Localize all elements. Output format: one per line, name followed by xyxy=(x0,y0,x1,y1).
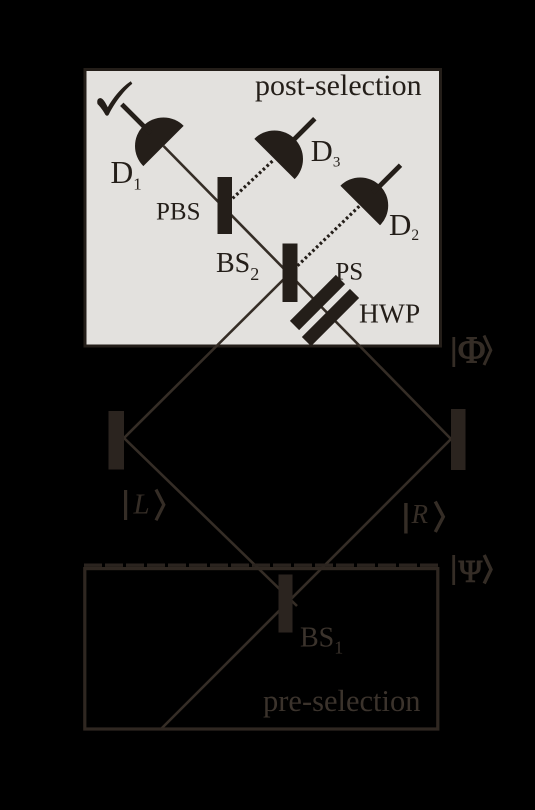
svg-text:PBS: PBS xyxy=(156,199,200,226)
svg-text:HWP: HWP xyxy=(359,298,420,329)
svg-text:post-selection: post-selection xyxy=(255,69,422,102)
svg-text:R: R xyxy=(411,499,429,529)
svg-text:Ψ: Ψ xyxy=(459,553,483,589)
svg-text:PS: PS xyxy=(335,259,363,286)
svg-text:pre-selection: pre-selection xyxy=(263,684,421,718)
svg-text:L: L xyxy=(133,489,150,521)
svg-text:Φ: Φ xyxy=(458,330,486,372)
